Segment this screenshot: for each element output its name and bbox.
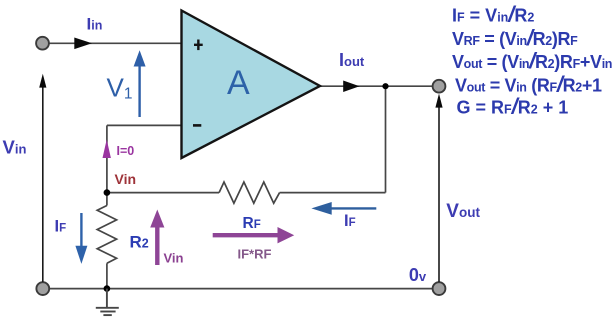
resistor RF (horizontal zigzag) [219, 182, 280, 203]
wire: inverting input vertical down to node Vin [106, 125, 108, 205]
junction: output node [382, 83, 388, 89]
annotation arrow RF voltage (purple right) [213, 227, 295, 243]
wire: non-inverting input (top) [49, 42, 182, 44]
svg-text:Vin: Vin [164, 251, 184, 266]
wire: feedback horizontal right segment from RF [280, 192, 386, 194]
annotation arrow I=0 (purple small up) [103, 140, 111, 159]
svg-text:Vin: Vin [115, 171, 137, 187]
svg-text:Vout: Vout [446, 201, 480, 222]
junction: bottom rail / ground [104, 285, 111, 292]
annotation arrow Vin (left side, black up) [39, 74, 46, 282]
wire: R2 bottom lead to bottom rail [106, 263, 108, 288]
svg-text:IF*RF: IF*RF [238, 247, 272, 262]
op-amp pin + (non-inverting) [194, 40, 203, 51]
ground [96, 289, 119, 316]
annotation arrow Vout (right side, black up) [435, 94, 442, 283]
terminal: bottom-left [36, 282, 49, 295]
current arrow Iin (black) [74, 38, 92, 50]
wire: inverting input horizontal [107, 124, 182, 126]
wire: bottom rail 0v [49, 288, 433, 290]
terminal: bottom-right [433, 282, 446, 295]
current arrow Iout (black) [343, 81, 359, 93]
wire: op-amp output to output terminal [320, 85, 433, 87]
wire: feedback horizontal left segment to RF [107, 192, 219, 194]
op-amp pin - (inverting) [193, 124, 201, 127]
wire: feedback vertical from output node down [385, 86, 387, 192]
terminal: top-left input [36, 37, 49, 50]
svg-text:G = RF/R2 + 1: G = RF/R2 + 1 [457, 94, 569, 119]
svg-text:A: A [227, 64, 250, 102]
terminal: top-right output [433, 80, 446, 93]
op-amp U1 A [182, 11, 321, 159]
svg-text:I=0: I=0 [117, 144, 135, 158]
annotation arrow Vin (purple up, beside R2) [150, 210, 164, 266]
annotation arrow IF (blue down, beside R2) [75, 213, 87, 264]
svg-text:IF = Vin/R2: IF = Vin/R2 [452, 2, 534, 27]
junction: node Vin (inverting input / R2 / RF) [104, 189, 111, 196]
annotation arrow IF (blue left, feedback) [311, 202, 376, 215]
annotation arrow V1 (blue up) [134, 50, 146, 117]
resistor R2 (vertical zigzag) [97, 206, 116, 264]
